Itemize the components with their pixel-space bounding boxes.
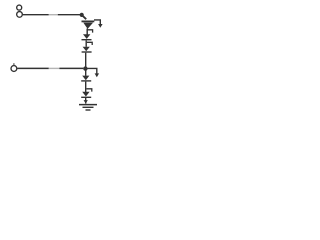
ground [79,105,97,110]
arrow into D4 from node B [87,68,99,77]
photodiode D5 [81,92,91,98]
wire D3 to node B [85,53,87,67]
arrowhead into ground [84,100,88,104]
photodiode D2 [82,34,92,40]
wire top rail left segment [23,14,49,16]
node A junction dot [80,13,84,17]
wire node B to D4 [85,70,87,76]
photodiode D1 [82,21,95,29]
photodiode D4 [81,76,91,81]
wire D1 to D2 [86,29,88,35]
wire mid rail faint middle segment [49,67,60,69]
arrow into D2 [88,30,93,33]
wire top rail right segment [58,14,82,16]
port J2 stub [13,63,15,65]
node B junction dot [83,66,87,70]
arrow out of D2 [87,42,92,45]
wire dot to D1 [82,15,86,19]
wire mid rail left segment [17,67,49,69]
wire D4 to D5 [85,82,87,93]
photodiode D3 [82,47,92,52]
wire D5 to ground [85,98,87,104]
port J1 lower circle [17,12,23,18]
wire D2 to D3 [85,40,87,46]
wire top rail faint middle segment [49,14,58,16]
wire mid rail right segment [59,67,83,69]
arrow into D1 [94,20,103,28]
port J2 circle [11,66,17,72]
port J1 upper circle [17,5,22,10]
arrow into D5 [87,89,92,92]
